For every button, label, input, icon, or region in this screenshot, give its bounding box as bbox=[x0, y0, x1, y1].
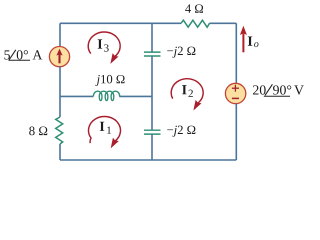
voltage source 20V circle bbox=[225, 83, 245, 103]
label: 4 ohm bbox=[185, 4, 203, 12]
wire: left branch middle segment bbox=[59, 66, 61, 117]
branch current Io arrow bbox=[242, 34, 244, 53]
wire: right branch lower segment bbox=[235, 104, 237, 160]
inductor L=j10ohm coil bbox=[93, 91, 119, 100]
capacitor C bottom -j2ohm plates bbox=[144, 129, 161, 131]
wire: middle branch lower segment bbox=[151, 134, 153, 160]
wire: left branch lower segment bbox=[59, 144, 61, 160]
label: I2 bbox=[182, 85, 187, 94]
resistor R=4ohm zigzag on top rail bbox=[181, 20, 210, 27]
wire: middle rail left segment bbox=[60, 95, 93, 97]
wire: middle rail right segment bbox=[119, 95, 152, 97]
wire: left branch upper segment bbox=[59, 23, 61, 47]
label: j10 ohm bbox=[95, 75, 124, 86]
wire: bottom rail bbox=[60, 159, 236, 161]
label: -j2 ohm top bbox=[167, 47, 195, 58]
label: -j2 ohm bottom bbox=[167, 126, 195, 137]
wire: middle branch center segment bbox=[151, 56, 153, 130]
wire: top rail right segment bbox=[210, 22, 237, 24]
current source arrow pointing up bbox=[56, 49, 62, 56]
voltage source plus sign bbox=[232, 87, 239, 89]
wire: top rail left segment bbox=[60, 22, 181, 24]
wire: middle branch upper segment bbox=[151, 23, 153, 52]
label: 8 ohm bbox=[29, 127, 47, 136]
label: I3 bbox=[98, 39, 103, 48]
resistor R=8ohm zigzag on left branch bbox=[56, 117, 63, 144]
label: Io bbox=[248, 37, 253, 46]
mesh current I1 arc arrow bbox=[88, 116, 120, 143]
label: 20 angle 90 deg V bbox=[253, 85, 266, 94]
wire: right branch upper segment bbox=[235, 23, 237, 83]
mesh current I2 arc arrow bbox=[171, 79, 203, 104]
capacitor C top -j2ohm plates bbox=[144, 51, 161, 53]
label: I1 bbox=[100, 122, 105, 131]
current source 5A circle bbox=[49, 47, 69, 67]
mesh current I3 arc arrow bbox=[88, 32, 120, 57]
voltage source minus sign bbox=[232, 97, 239, 99]
label: 5 angle 0 deg A bbox=[4, 50, 10, 59]
